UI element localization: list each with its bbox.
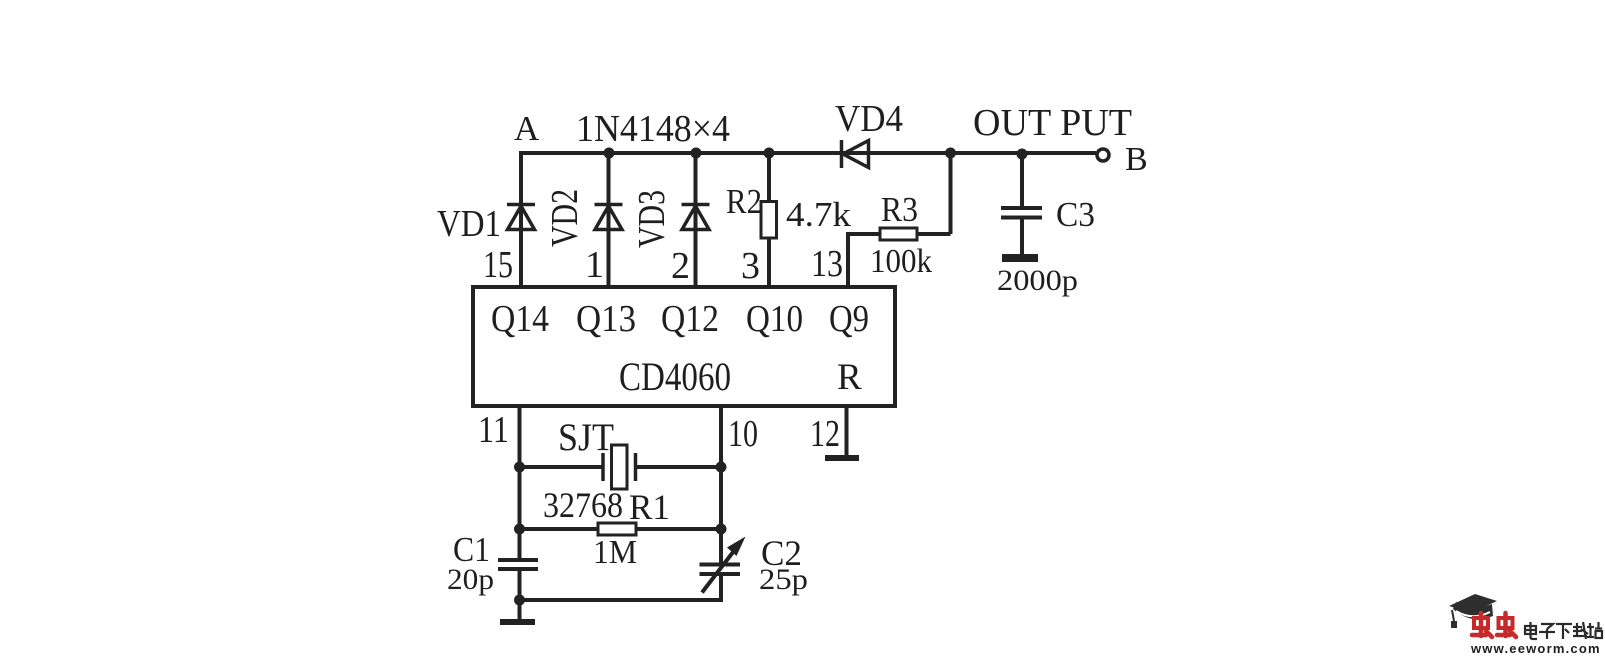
svg-text:1N4148×4: 1N4148×4: [576, 108, 730, 150]
svg-text:12: 12: [810, 413, 840, 455]
svg-text:R1: R1: [629, 487, 670, 527]
svg-text:VD4: VD4: [835, 98, 903, 140]
svg-text:VD2: VD2: [544, 189, 586, 247]
svg-text:Q9: Q9: [829, 298, 869, 340]
svg-text:R3: R3: [881, 190, 918, 229]
svg-text:VD1: VD1: [437, 203, 501, 245]
svg-text:Q14: Q14: [491, 298, 549, 340]
svg-text:11: 11: [478, 409, 509, 451]
svg-text:20p: 20p: [447, 563, 494, 596]
svg-text:VD3: VD3: [631, 190, 673, 248]
svg-text:SJT: SJT: [558, 416, 614, 459]
svg-text:10: 10: [728, 413, 758, 455]
svg-text:CD4060: CD4060: [619, 354, 731, 399]
svg-text:32768: 32768: [543, 485, 623, 525]
svg-text:R: R: [837, 357, 862, 398]
svg-text:2: 2: [671, 245, 690, 287]
svg-text:100k: 100k: [870, 243, 932, 280]
svg-text:13: 13: [811, 243, 843, 285]
svg-text:Q10: Q10: [746, 298, 803, 340]
svg-text:OUT PUT: OUT PUT: [973, 102, 1132, 144]
svg-text:C3: C3: [1056, 195, 1095, 234]
svg-text:2000p: 2000p: [997, 264, 1078, 297]
svg-text:A: A: [514, 109, 540, 148]
svg-text:Q12: Q12: [661, 298, 719, 340]
svg-text:1: 1: [585, 244, 604, 286]
svg-text:R2: R2: [726, 182, 762, 221]
svg-text:B: B: [1125, 141, 1148, 178]
svg-text:4.7k: 4.7k: [786, 195, 852, 234]
svg-text:1M: 1M: [593, 534, 637, 571]
svg-text:www.eeworm.com: www.eeworm.com: [1470, 641, 1601, 653]
svg-text:3: 3: [741, 245, 760, 287]
svg-text:Q13: Q13: [576, 298, 636, 340]
svg-text:25p: 25p: [759, 563, 808, 596]
svg-text:15: 15: [483, 244, 513, 286]
